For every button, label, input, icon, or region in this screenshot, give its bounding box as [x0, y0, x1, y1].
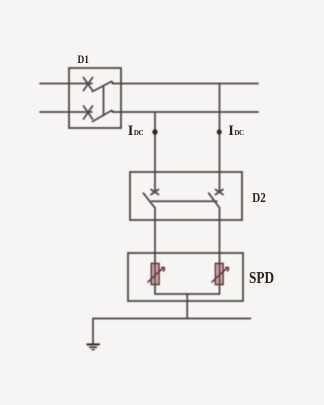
wire L2 right segment — [113, 111, 259, 113]
D2 switch1 bottom lead — [154, 208, 156, 264]
SPD output lead — [186, 294, 188, 319]
earth stub — [92, 319, 94, 344]
D2 switch1 contact x — [151, 190, 159, 195]
wire L1 left segment — [40, 83, 92, 85]
D2 switch2 top lead — [219, 172, 221, 191]
breaker D1 box — [69, 68, 121, 128]
varistor MOV2 diagonal — [212, 267, 229, 282]
svg-text:D2: D2 — [252, 190, 266, 205]
varistor MOV2 body — [215, 264, 223, 285]
varistor MOV1 lead — [154, 264, 156, 295]
breaker D1 pole1 contact X — [84, 78, 93, 91]
vertical drop from L2 — [154, 112, 156, 172]
breaker D1 pole2 contact X — [84, 106, 93, 119]
D2 linkage bar — [152, 200, 217, 202]
svg-text:D1: D1 — [78, 54, 90, 66]
D2 switch2 bottom lead — [219, 208, 221, 264]
wire L1 right segment — [113, 83, 259, 85]
D2 switch2 blade — [209, 193, 220, 207]
SPD box — [128, 253, 243, 301]
ground symbol — [87, 344, 99, 349]
varistor MOV1 diagonal — [148, 267, 165, 282]
varistor MOV1 body — [151, 264, 159, 285]
wire L2 left segment — [40, 111, 92, 113]
D2 switch2 contact x — [216, 190, 224, 195]
svg-text:SPD: SPD — [249, 268, 274, 287]
D2 switch1 blade — [143, 193, 154, 207]
breaker D1 pole1 blade — [93, 82, 114, 92]
varistor MOV2 lead — [219, 264, 221, 295]
junction dot left Idc — [152, 129, 157, 134]
breaker D1 linkage — [103, 87, 105, 116]
vertical drop from L1 — [219, 84, 221, 173]
D2 switch1 top lead — [154, 172, 156, 191]
junction dot right Idc — [217, 130, 222, 135]
earth conductor — [93, 318, 251, 320]
D2 box — [130, 172, 242, 220]
SPD common bar — [155, 293, 220, 295]
breaker D1 pole2 blade — [93, 111, 114, 122]
